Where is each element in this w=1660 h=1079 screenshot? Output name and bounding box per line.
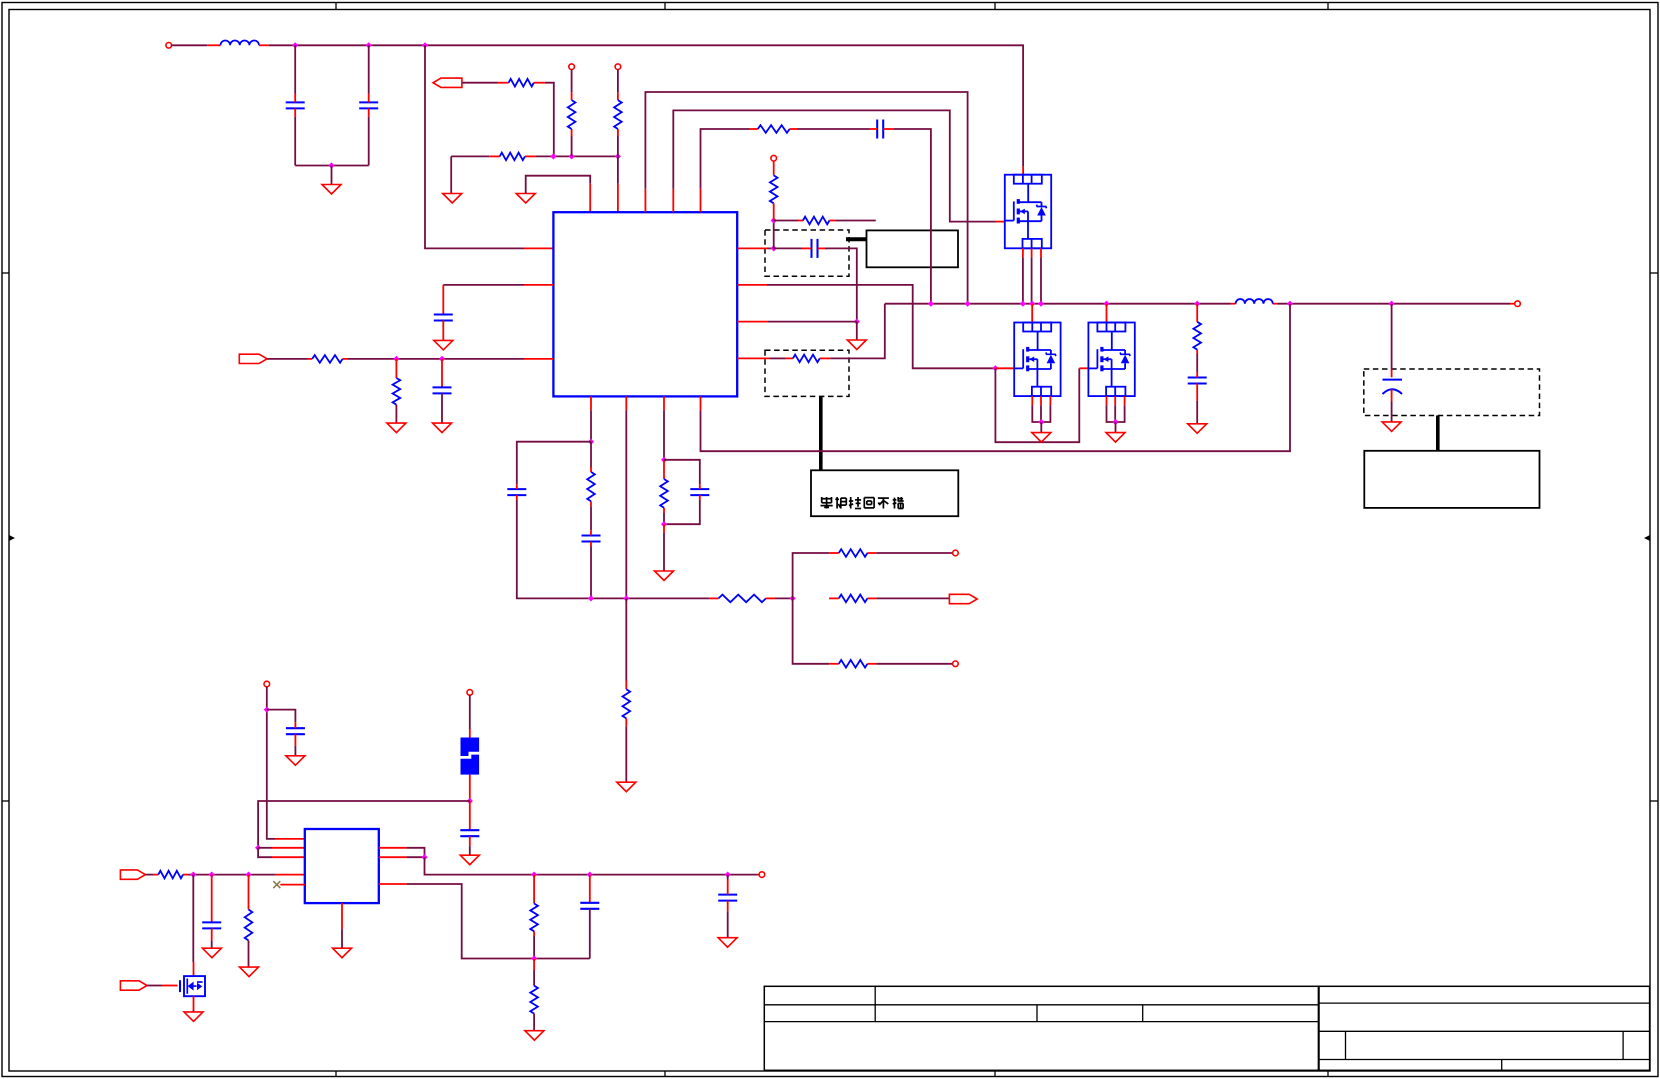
wire COMP to R6 bbox=[701, 129, 750, 189]
op-amp U1 main controller bbox=[553, 212, 737, 396]
wire R13 to C12 bbox=[590, 506, 592, 530]
junction out b bbox=[587, 872, 593, 878]
transistor Q4 bbox=[180, 976, 205, 996]
junction in a bbox=[190, 872, 196, 878]
capacitor C2 bbox=[359, 94, 378, 117]
capacitor C11 bbox=[507, 484, 526, 500]
wire FB to C6 bbox=[774, 247, 802, 249]
wire C1 upper bbox=[294, 45, 296, 94]
ground GND20 bbox=[718, 938, 737, 948]
ground GND3 bbox=[516, 194, 535, 204]
wire bottom bus bbox=[534, 597, 709, 599]
wire VIN rail bbox=[269, 45, 1023, 166]
wire R12 gnd stem bbox=[395, 405, 397, 424]
resistor R3 bbox=[489, 153, 535, 161]
wire U2 fb bbox=[407, 884, 590, 959]
junction Q3 source bbox=[1112, 419, 1118, 425]
red stub C8 bottom bbox=[1391, 390, 1393, 402]
red stub Q3 source pins bbox=[1107, 396, 1125, 405]
resistor R14 bbox=[623, 681, 631, 727]
red stub U2 pin EN bbox=[275, 874, 304, 876]
wire R23 gnd stem bbox=[533, 1014, 535, 1031]
wire FB into dashed box bbox=[767, 247, 772, 249]
red stub U2 pin IN1 bbox=[275, 838, 304, 840]
wire VSNS bbox=[768, 321, 857, 323]
junction SW d bbox=[1029, 301, 1035, 307]
wire RC loop bottom bbox=[664, 500, 700, 524]
red stub U2 pin IN2 bbox=[272, 847, 305, 849]
resistor R16 bbox=[709, 595, 775, 603]
dashed box option R (comp resistor) bbox=[765, 350, 849, 396]
wire R2 to corner bbox=[545, 83, 554, 157]
title block left bbox=[764, 986, 1319, 1070]
red stub R12 top bbox=[395, 359, 397, 378]
wire U2 gnd stem bbox=[341, 929, 343, 948]
wire C7 gnd stem bbox=[1196, 401, 1198, 424]
junction EN B bbox=[569, 153, 575, 159]
wire EN to R2 bbox=[462, 82, 498, 84]
wire VOUT feedback return bbox=[701, 304, 1291, 452]
wire U2 pin3 link bbox=[258, 848, 272, 857]
red stub Q3 gate bbox=[1079, 367, 1088, 369]
capacitor C18 bbox=[718, 880, 737, 912]
junction SS b bbox=[439, 356, 445, 362]
wire C5 to SW bbox=[894, 129, 931, 304]
red stub Q4 source bbox=[193, 996, 195, 1010]
wire C2 lower bbox=[368, 117, 370, 166]
capacitor C7 bbox=[1188, 372, 1207, 401]
wire sync down bbox=[625, 410, 627, 598]
junction SW c bbox=[1020, 301, 1026, 307]
red stub U1 pin EN bbox=[617, 184, 619, 212]
red stub C16 top bbox=[211, 875, 213, 923]
capacitor C5 bbox=[870, 120, 894, 139]
wire fan down bbox=[793, 598, 830, 663]
wire R3 to junctions bbox=[535, 155, 618, 157]
junction VOUT a bbox=[1287, 301, 1293, 307]
capacitor C9 bbox=[434, 315, 453, 341]
red stub Q4 gate bbox=[162, 985, 178, 987]
wire SS to R11 bbox=[267, 358, 307, 360]
wire input net bbox=[189, 874, 276, 876]
red stub Q2 drain bbox=[1031, 304, 1033, 323]
wire Q1 source b bbox=[1031, 258, 1033, 304]
terminal VCC2 bbox=[264, 681, 270, 687]
wire gate U-loop bbox=[995, 368, 1079, 442]
junction SS a bbox=[393, 356, 399, 362]
junction SW b bbox=[965, 301, 971, 307]
red stub U1 pin COMP bbox=[700, 189, 702, 212]
ground GND12 bbox=[617, 782, 636, 792]
junction VOUT b bbox=[1389, 301, 1395, 307]
red stub U2 pin GND bbox=[341, 903, 343, 929]
wire FB up bbox=[773, 221, 775, 249]
capacitor C10 bbox=[433, 387, 452, 393]
ground GND17 bbox=[202, 948, 221, 958]
ground GND7 bbox=[1106, 433, 1125, 443]
wire R8 dangling bbox=[836, 220, 876, 222]
capacitor C14 bbox=[286, 722, 305, 746]
wire BOOT loop bbox=[645, 92, 967, 304]
wire C12 down bbox=[590, 547, 592, 599]
wire RC gnd stem bbox=[663, 533, 665, 571]
junction fuse out bbox=[467, 798, 473, 804]
wire gnd stem bbox=[331, 166, 333, 185]
resistor R20 bbox=[153, 871, 189, 879]
red stub C8 top bbox=[1391, 370, 1393, 378]
red stub U1 pin COMP2 bbox=[590, 396, 592, 410]
wire C2 upper bbox=[368, 45, 370, 94]
wire VIN to L1 bbox=[171, 44, 207, 46]
wire FB stub right bbox=[774, 220, 798, 222]
junction VIN C1 bbox=[292, 42, 298, 48]
dashed box option output cap bbox=[1364, 369, 1540, 416]
terminal VOUT2 bbox=[759, 872, 765, 878]
wire Q3 source join bbox=[1107, 405, 1125, 422]
terminal sense A bbox=[953, 550, 959, 556]
red stub L1 left bbox=[207, 44, 220, 46]
ground GND6 bbox=[1032, 433, 1051, 443]
wire Q2 gnd stem bbox=[1040, 422, 1042, 433]
red stub Q1 gate bbox=[996, 221, 1005, 223]
red stub U1 pin SS bbox=[524, 358, 553, 360]
wire C18 link bbox=[727, 875, 729, 880]
terminal FB pullup bbox=[771, 155, 777, 161]
resistor R9 (optional) bbox=[785, 355, 830, 363]
wire C15 gnd stem bbox=[469, 846, 471, 855]
no-connect X mark bbox=[273, 881, 280, 888]
dashed box option C (feedback cap) bbox=[765, 230, 849, 276]
red stub R7 bottom bbox=[773, 203, 775, 220]
resistor R13 bbox=[587, 467, 595, 506]
resistor R15 bbox=[660, 479, 668, 513]
wire Q2 source join bbox=[1032, 405, 1050, 422]
callout box output note bbox=[1364, 451, 1539, 508]
wire VCC2 down bbox=[267, 687, 276, 839]
capacitor C12 bbox=[582, 530, 601, 546]
ground GND1 bbox=[322, 185, 341, 195]
junction U2 out bbox=[421, 854, 427, 860]
junction U2 in bbox=[255, 845, 261, 851]
junction SW e bbox=[1038, 301, 1044, 307]
resistor R18 bbox=[829, 595, 876, 603]
transistor Q3 bbox=[1088, 323, 1134, 397]
red stub U1 pin VIN2 bbox=[524, 284, 553, 286]
red stub Q2 source pins bbox=[1032, 396, 1050, 405]
red stub U1 pin VCC bbox=[524, 247, 553, 249]
wire fan up bbox=[793, 553, 830, 598]
port EN (left) bbox=[433, 78, 462, 87]
wire C11 down bbox=[517, 500, 534, 599]
wire C8 gnd stem bbox=[1391, 402, 1393, 422]
junction VIN branch bbox=[422, 42, 428, 48]
wire R5 to junction bbox=[617, 136, 619, 156]
wire EN gnd stem bbox=[450, 156, 452, 193]
red stub Q1 drain pin bbox=[1022, 166, 1024, 174]
wire U2 out1 bbox=[407, 848, 425, 857]
wire C17 down bbox=[589, 909, 591, 959]
red stub U1 pin VOS bbox=[700, 396, 702, 410]
transistor Q2 bbox=[1014, 323, 1060, 397]
junction RC top bbox=[661, 457, 667, 463]
wire PH to gate rail bbox=[673, 110, 996, 221]
junction EN A bbox=[550, 153, 556, 159]
junction fan bbox=[790, 595, 796, 601]
capacitor C1 bbox=[286, 94, 305, 117]
wire R9 to SW rail bbox=[830, 304, 885, 359]
junction EN C bbox=[615, 153, 621, 159]
wire Q4 gnd stem bbox=[193, 1010, 195, 1012]
red stub Q4 drain bbox=[193, 962, 195, 976]
wire Q3 gnd stem bbox=[1115, 422, 1117, 433]
wire comp node bbox=[590, 410, 592, 441]
red stub Q3 drain bbox=[1106, 304, 1108, 323]
junction Q2 source bbox=[1038, 419, 1044, 425]
resistor R17 bbox=[829, 549, 876, 557]
wire R15 bottom bbox=[663, 513, 665, 524]
junction fb div bbox=[531, 955, 537, 961]
resistor R19 bbox=[829, 660, 876, 668]
red stub Q2 gate bbox=[996, 367, 1014, 369]
red stub U2 pin OUT2 bbox=[379, 856, 407, 858]
red stub R7 top bbox=[773, 161, 775, 176]
junction RC bottom bbox=[661, 521, 667, 527]
wire R17 to terminal bbox=[876, 552, 952, 554]
wire Q1 source c bbox=[1040, 258, 1042, 304]
wire C16 gnd stem bbox=[211, 941, 213, 948]
wire VCC3 to fuse bbox=[469, 695, 471, 729]
junction SW g bbox=[1194, 301, 1200, 307]
red stub fuse bottom bbox=[469, 775, 471, 801]
wire Q2 source mid bbox=[1040, 405, 1042, 422]
capacitor C8 polarized bbox=[1383, 380, 1403, 394]
callout box U1 note bbox=[867, 230, 959, 267]
wire RC node top bbox=[663, 410, 665, 460]
ground GND10 bbox=[387, 423, 406, 433]
note text 單獨拉回不搭 bbox=[821, 497, 904, 509]
wire C18 gnd stem bbox=[727, 911, 729, 938]
resistor R7 bbox=[770, 175, 778, 203]
red stub U2 pin FB bbox=[379, 883, 407, 885]
title block right bbox=[1318, 986, 1649, 1070]
wire Q3 source mid bbox=[1114, 405, 1116, 422]
resistor R12 bbox=[393, 378, 401, 405]
red stub R23 top bbox=[533, 959, 535, 971]
wire R19 to terminal bbox=[876, 663, 952, 665]
resistor R10 bbox=[1193, 322, 1201, 354]
terminal VCC3 bbox=[467, 690, 473, 696]
terminal sense B bbox=[953, 661, 959, 667]
red stub U1 pin RT2 bbox=[663, 396, 665, 410]
wire U2 pin2 link bbox=[258, 847, 272, 849]
wire R14 gnd stem bbox=[625, 726, 627, 782]
terminal VOUT bbox=[1515, 301, 1521, 307]
red stub C9 top bbox=[442, 285, 444, 315]
wire U2 out2 bbox=[407, 856, 425, 858]
red stub R22 top bbox=[533, 875, 535, 904]
wire Q4 drain bbox=[192, 875, 194, 962]
junction FB top bbox=[771, 217, 777, 223]
red stub C15 top bbox=[469, 801, 471, 830]
red stub L1 right bbox=[259, 44, 269, 46]
junction SW f bbox=[1103, 301, 1109, 307]
wire C6 to SW drop bbox=[825, 248, 857, 321]
ground GND18 bbox=[240, 967, 259, 977]
wire C14 gnd stem bbox=[294, 746, 296, 756]
red stub R15 top bbox=[663, 460, 665, 479]
wire PD to R20 bbox=[145, 874, 153, 876]
junction in c bbox=[245, 872, 251, 878]
red stub U1 pin VSNS bbox=[737, 321, 768, 323]
junction gnd bus bbox=[328, 162, 334, 168]
ground GND2 bbox=[443, 194, 462, 204]
red stub C17 top bbox=[589, 875, 591, 903]
inductor L1 bbox=[221, 40, 259, 45]
junction SW sense bbox=[854, 319, 860, 325]
wire R22 bottom bbox=[533, 936, 535, 959]
red stub VOUT terminal bbox=[1510, 303, 1515, 305]
junction comp bbox=[588, 439, 594, 445]
ground GND11 bbox=[433, 423, 452, 433]
resistor R4 bbox=[568, 92, 576, 136]
port FB out (right) bbox=[949, 594, 977, 603]
junction SW a bbox=[928, 301, 934, 307]
wire gate lead bbox=[147, 985, 162, 987]
red stub R21 top bbox=[248, 875, 250, 910]
wire C10 gnd stem bbox=[441, 393, 443, 423]
junction VCC2 bbox=[264, 707, 270, 713]
resistor R22 bbox=[530, 904, 538, 937]
ground GND14 bbox=[286, 756, 305, 766]
ground GND15 bbox=[460, 855, 479, 865]
ground GND5 bbox=[1188, 424, 1207, 434]
wire out rail bbox=[425, 857, 758, 874]
ground GND16 bbox=[184, 1012, 203, 1022]
red stub U2 pin IN3 bbox=[272, 856, 305, 858]
wire R23 link bbox=[533, 970, 535, 986]
wire SW sense gnd stem bbox=[856, 322, 858, 340]
resistor R6 bbox=[749, 125, 797, 133]
red stub Q1 source pins bbox=[1023, 248, 1041, 257]
leader thick line from output cap box bbox=[1436, 416, 1440, 451]
ground GND8 bbox=[1382, 422, 1401, 432]
wire comp R13 link bbox=[590, 442, 592, 467]
red stub U2 pin OUT1 bbox=[379, 847, 407, 849]
ground GND4 bbox=[847, 340, 866, 350]
wire R6 to C5 bbox=[797, 128, 870, 130]
wire RT into dashed box bbox=[770, 357, 785, 359]
capacitor C17 bbox=[580, 903, 599, 909]
wire SW rail bbox=[885, 303, 1231, 305]
red stub U1 pin SYNC bbox=[625, 396, 627, 410]
transistor Q1 bbox=[1005, 175, 1051, 249]
wire junction C to U1 pin bbox=[617, 156, 619, 183]
red stub RC gnd bbox=[663, 524, 665, 533]
wire R16 to fan bbox=[775, 597, 793, 599]
wire VIN2 cap branch bbox=[443, 284, 524, 286]
wire R4 to junction bbox=[571, 136, 573, 156]
wire L2 to VOUT bbox=[1278, 303, 1510, 305]
wire R10 to C7 bbox=[1196, 354, 1198, 372]
junction FB bbox=[771, 245, 777, 251]
leader thick line to callout box bbox=[846, 237, 867, 241]
junction bus a bbox=[588, 595, 594, 601]
resistor R11 bbox=[307, 355, 348, 363]
red stub U1 pin PH bbox=[672, 189, 674, 212]
wire RC loop top bbox=[664, 460, 700, 485]
wire VIN to U1 VCC pin bbox=[425, 45, 524, 248]
red stub U1 pin FB bbox=[737, 247, 767, 249]
resistor R5 bbox=[614, 92, 622, 136]
wire R21 gnd stem bbox=[248, 941, 250, 968]
red stub U2 pin NC bbox=[280, 884, 305, 886]
capacitor C13 bbox=[690, 484, 709, 500]
wire pullup C upper bbox=[617, 69, 619, 92]
red stub C10 top bbox=[441, 359, 443, 388]
red stub U1 pin LSG bbox=[737, 284, 767, 286]
ground GND13 bbox=[655, 571, 674, 581]
capacitor C15 bbox=[460, 830, 479, 846]
wire fuse to U2 bbox=[258, 801, 470, 848]
wire SS net bbox=[348, 358, 524, 360]
wire VCC2 cap branch bbox=[267, 710, 296, 723]
terminal pullup B bbox=[569, 64, 575, 70]
wire C1 lower bbox=[294, 117, 296, 166]
terminal pullup C bbox=[615, 64, 621, 70]
op-amp U2 regulator bbox=[305, 829, 379, 903]
resistor R21 bbox=[245, 910, 253, 941]
red stub fuse top bbox=[469, 729, 471, 738]
wire pullup B upper bbox=[571, 69, 573, 92]
wire Q1 source a bbox=[1022, 258, 1024, 304]
red stub VOUT2 terminal bbox=[758, 874, 760, 876]
terminal VIN bbox=[166, 43, 172, 49]
junction out a bbox=[531, 872, 537, 878]
inductor L2 bbox=[1231, 299, 1279, 304]
note box bbox=[811, 470, 958, 516]
red stub U1 pin AGND bbox=[589, 184, 591, 212]
port VREG in (right) bbox=[120, 870, 145, 879]
resistor R23 bbox=[530, 986, 538, 1014]
ground GND21 bbox=[333, 948, 352, 958]
capacitor C6 (optional) bbox=[802, 239, 828, 258]
junction bus b bbox=[623, 595, 629, 601]
wire comp left branch bbox=[517, 442, 591, 485]
red stub snubber top bbox=[1196, 304, 1198, 322]
ground GND9 bbox=[434, 340, 453, 350]
wire LSG to gates bbox=[767, 285, 995, 368]
wire U1 agnd bbox=[526, 176, 591, 194]
red stub U1 pin RT bbox=[737, 357, 770, 359]
leader thick line from dashed R box bbox=[819, 396, 823, 470]
wire EN net horizontal bbox=[451, 155, 489, 157]
wire R14 link bbox=[625, 598, 627, 680]
port Q4 gate (right) bbox=[120, 981, 147, 990]
junction gate node bbox=[992, 365, 998, 371]
resistor R8 bbox=[798, 217, 836, 225]
fuse F1 bbox=[458, 738, 483, 775]
resistor R2 bbox=[498, 79, 545, 87]
junction out c bbox=[725, 872, 731, 878]
wire R18 to port bbox=[876, 597, 949, 599]
red stub U1 pin BOOT bbox=[644, 189, 646, 212]
capacitor C16 bbox=[202, 922, 221, 941]
ground GND19 bbox=[525, 1031, 544, 1041]
junction in b bbox=[209, 872, 215, 878]
wire C1-C2 gnd bus bbox=[295, 165, 369, 167]
junction VIN C2 bbox=[366, 42, 372, 48]
port SS (right) bbox=[239, 354, 267, 363]
